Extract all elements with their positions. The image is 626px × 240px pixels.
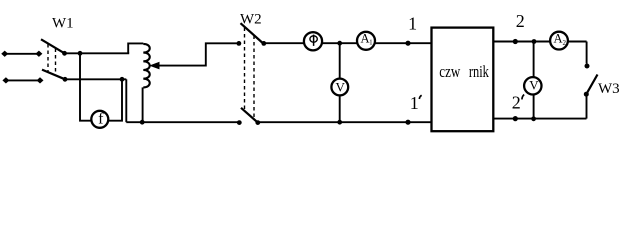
node 2' bbox=[513, 116, 518, 121]
node 2 bbox=[513, 39, 518, 44]
svg-text:V: V bbox=[336, 80, 346, 95]
wire wiper to W2 bbox=[157, 43, 239, 65]
wire W1-bottom to bottom rail corner bbox=[125, 79, 127, 122]
node V1 top bbox=[337, 41, 342, 46]
wire bottom rail middle section bbox=[258, 121, 432, 123]
svg-text:2: 2 bbox=[512, 92, 521, 112]
node W2 top input bbox=[237, 41, 242, 46]
svg-text:W3: W3 bbox=[598, 81, 620, 97]
wire top rail right section bbox=[493, 41, 586, 43]
switch W3 blade bbox=[586, 75, 597, 95]
svg-text:W1: W1 bbox=[52, 16, 74, 32]
svg-text:2: 2 bbox=[516, 11, 525, 31]
frequency meter f bbox=[91, 111, 108, 128]
wire bottom rail right section bbox=[493, 118, 586, 120]
phase meter phi bbox=[304, 32, 322, 50]
node W1 bottom contact bbox=[63, 77, 68, 82]
svg-text:2: 2 bbox=[563, 39, 567, 47]
node transformer bottom junction bbox=[140, 120, 145, 125]
ammeter A1 bbox=[357, 32, 375, 50]
wire bottom rail left bbox=[126, 121, 239, 123]
two-port box czwornik bbox=[432, 28, 494, 132]
wire W3 to bottom rail bbox=[586, 94, 588, 118]
terminal bottom-left bbox=[3, 78, 9, 83]
autotransformer winding bbox=[143, 44, 149, 87]
svg-text:f: f bbox=[98, 110, 104, 127]
switch W1 bottom blade bbox=[42, 70, 65, 80]
wire W1 top output bbox=[65, 52, 130, 54]
node W2 top contact bbox=[261, 41, 266, 46]
wire voltmeter V1 branch bbox=[339, 43, 341, 122]
wire riser to transformer top bbox=[128, 43, 143, 53]
node V2 bottom bbox=[531, 116, 536, 121]
switch W1 top blade bbox=[41, 39, 65, 53]
svg-text:1: 1 bbox=[410, 93, 419, 113]
svg-text:V: V bbox=[529, 78, 539, 93]
ammeter A2 bbox=[550, 32, 568, 50]
wire input bottom bbox=[6, 79, 40, 81]
node V1 bottom bbox=[337, 120, 342, 125]
W2 gang link dashed bbox=[244, 28, 246, 111]
node f-meter tap top bbox=[78, 51, 83, 56]
switch W2 top blade bbox=[241, 23, 264, 44]
wire transformer bottom lead bbox=[142, 87, 144, 122]
terminal top-left bbox=[2, 51, 8, 56]
wire f-meter left lead bbox=[80, 53, 91, 120]
wiper arrow of autotransformer bbox=[151, 63, 159, 69]
node f-meter tap bottom bbox=[120, 77, 125, 82]
terminal bottom-right of input bbox=[37, 78, 43, 83]
wire f-meter right lead bbox=[109, 79, 122, 120]
node W3 top contact bbox=[585, 64, 590, 69]
node W3 pivot bbox=[584, 92, 589, 97]
node 1 bbox=[405, 41, 410, 46]
voltmeter V2 bbox=[524, 77, 541, 94]
svg-text:1: 1 bbox=[369, 39, 373, 47]
node W2 bottom contact bbox=[255, 120, 260, 125]
svg-text:czw: czw bbox=[439, 62, 461, 81]
svg-text:A: A bbox=[553, 32, 562, 46]
switch W2 bottom blade bbox=[241, 108, 258, 123]
svg-text:1: 1 bbox=[408, 13, 417, 33]
node V2 top bbox=[532, 39, 537, 44]
node W1 top contact bbox=[62, 51, 67, 56]
node 1' bbox=[405, 120, 410, 125]
wire input top bbox=[5, 53, 39, 55]
voltmeter V1 bbox=[331, 79, 348, 96]
node W2 bottom input bbox=[237, 120, 242, 125]
wire V2 branch bbox=[533, 42, 535, 119]
terminal top-right of input bbox=[36, 51, 42, 56]
wire right drop to W3 bbox=[586, 42, 588, 64]
W1 gang link dashed bbox=[47, 44, 49, 72]
svg-text:rnik: rnik bbox=[469, 62, 489, 81]
wire W1 bottom output bbox=[65, 78, 126, 80]
wire top rail left section bbox=[264, 42, 432, 44]
